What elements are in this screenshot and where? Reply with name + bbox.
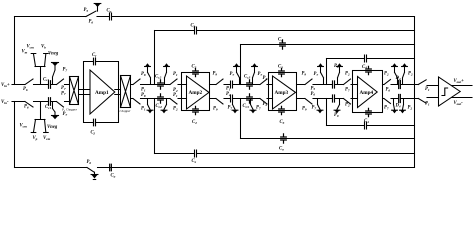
svg-text:P1: P1 [173,72,178,77]
capacitor Cc1 top [49,81,51,89]
svg-text:P1: P1 [141,88,146,93]
switch Vcm branch right bottom [45,120,46,133]
Vneg flag terminal top [52,62,59,64]
Vneg flag out second top [402,63,407,66]
svg-text:P1: P1 [141,107,146,112]
capacitor Cd on top bus4 [365,55,367,62]
switch P7 out bottom [384,99,391,104]
switch P2 out top [384,80,391,85]
svg-text:P9: P9 [213,72,218,77]
wire bus2 vertical tap bottom [154,99,156,154]
capacitor series stage3 bottom [231,95,233,102]
wire bottom rail input [12,101,70,103]
svg-text:P9: P9 [334,113,339,118]
Vneg flag stage2 first bottom [148,99,151,111]
switch P1 buffer bottom [418,98,438,104]
Vneg flag stage2 first top [145,63,150,66]
Vneg flag out second bottom [403,99,404,111]
svg-text:P2: P2 [384,72,389,77]
svg-text:Amp3: Amp3 [275,90,289,96]
switch P6 stage4 bottom first [305,99,312,105]
svg-text:C3: C3 [278,65,283,70]
wire top rail output [383,84,419,86]
capacitor Ca on top bus1 [110,13,112,20]
switch P8 top after chopper2 [133,79,140,85]
svg-text:D4: D4 [395,104,401,109]
chopper 2 X [121,76,131,108]
output buffer triangle [439,77,461,106]
capacitor Co2 on bottom bus3 [281,134,287,143]
switch P5 stage4 top first [305,79,312,85]
svg-text:Vneg: Vneg [48,52,59,57]
tick Vp bottom [31,132,36,134]
switch P5 on top bus1 [86,7,98,17]
capacitor Cb on top bus2 [195,27,197,34]
switch P7 top rail [57,79,64,85]
svg-text:Cc3: Cc3 [243,104,250,109]
svg-text:P7: P7 [384,106,389,111]
svg-text:Cc1: Cc1 [45,105,52,110]
capacitor Co on top bus3 [280,40,286,49]
wire top rail stage3 [210,84,269,86]
svg-text:Vin+: Vin+ [1,83,10,88]
wire left bus vertical bottom [14,102,16,168]
switch P6 bottom rail [25,102,33,108]
svg-text:Amp4: Amp4 [360,90,374,96]
svg-text:Vout-: Vout- [454,101,464,106]
svg-text:Co: Co [279,147,284,152]
svg-text:P2: P2 [173,107,178,112]
capacitor series stage3 top [231,81,233,88]
svg-text:P1: P1 [425,87,430,92]
svg-text:P2: P2 [345,72,350,77]
svg-text:P6: P6 [24,105,29,110]
capacitor Cc3 bottom [247,94,253,103]
switch Vb branch right top [44,54,49,67]
svg-text:P7: P7 [314,72,319,77]
wire bottom bus4 y125.4 [327,125,415,127]
svg-text:Vneg: Vneg [47,125,58,130]
switch P7 bottom rail [57,102,64,108]
switch P2 stage4 top [344,79,351,85]
capacitor C4i top [366,66,372,74]
Vneg flag stage2 second bottom [164,99,167,111]
Vneg flag stage2 second top [164,63,169,66]
switch Pb on bottom bus1 [87,168,95,175]
switch P1 buffer top [418,80,438,86]
capacitor C2 top [193,68,199,76]
svg-text:Ca: Ca [107,9,112,14]
capacitor Cc2 top [158,80,164,89]
wire bottom rail stage3 [210,98,269,100]
switch Vcm branch left bottom [34,120,36,133]
wire into Amp4 [353,85,358,99]
wire bus4 vertical tap bottom [326,99,328,126]
wire bus3 vertical tap top [240,45,242,85]
wire top rail stage4 [297,84,353,86]
switch P9 stage3 bottom first [216,99,223,105]
svg-text:P9: P9 [302,72,307,77]
svg-text:P2: P2 [408,106,413,111]
svg-text:P7: P7 [256,106,261,111]
wire output bottom [452,97,473,99]
wire bottom bus3 y139 [241,138,415,140]
wire output top [452,85,473,87]
wire bottom rail stage4 [297,98,353,100]
tick Vcm bottom [44,132,49,134]
op-amp Amp1 triangle [90,70,115,114]
svg-text:Cc1: Cc1 [43,77,50,82]
wire top bus2 y30 [155,30,415,32]
svg-text:P2: P2 [408,72,413,77]
svg-text:P7: P7 [345,88,350,93]
capacitor Cc4 bottom [333,95,335,102]
svg-text:Vcm: Vcm [27,45,35,50]
svg-text:P9: P9 [302,107,307,112]
node Vcm network stem bottom [35,102,45,120]
capacitor CL bottom [399,95,401,103]
switch P8 bottom after chopper2 [133,99,140,105]
Vneg flag stage4 first bottom [318,99,321,111]
chopper 2 box [121,76,131,108]
svg-text:C4: C4 [364,119,369,124]
capacitor C3 bottom [279,106,285,114]
svg-text:P8: P8 [141,93,146,98]
svg-text:Vcm: Vcm [20,124,28,129]
svg-text:P6: P6 [89,20,94,25]
svg-text:Vm: Vm [22,50,28,55]
svg-text:Vin-: Vin- [1,100,9,105]
svg-text:Vcm: Vcm [43,136,51,141]
svg-text:P5: P5 [311,86,316,91]
svg-text:Co: Co [278,38,283,43]
op-amp Amp2 triangle [187,76,210,109]
svg-text:C3: C3 [280,120,285,125]
svg-text:P6: P6 [311,92,316,97]
capacitor CL top [399,81,401,89]
wire right bus vertical [414,17,416,168]
capacitor Cc4 top [333,81,335,88]
op-amp Amp4 triangle [358,77,378,108]
svg-text:P7: P7 [63,68,68,73]
capacitor C4i bottom [366,108,372,116]
svg-text:Chopper: Chopper [120,109,132,113]
svg-text:C2: C2 [192,65,197,70]
capacitor Cd2 on bottom bus4 [365,122,367,129]
op-amp Amp4 feedback box [353,71,383,113]
Vneg flag stage4 first top [318,63,323,66]
svg-text:P8: P8 [141,72,146,77]
wire top bus1 y16 [15,16,415,18]
wire top rail input [12,84,70,86]
svg-text:P7: P7 [61,91,66,96]
svg-text:D4: D4 [395,76,401,81]
svg-text:P2: P2 [226,92,231,97]
svg-text:P9: P9 [213,107,218,112]
wire Amp1 to chopper2 stubs [115,90,121,95]
wire bottom bus1 y168 [15,167,415,169]
capacitor C3 top [279,68,285,76]
svg-text:Pc Chopper: Pc Chopper [61,108,78,113]
capacitor Cc3 top [247,80,253,89]
switch Vcm branch left top [31,54,36,67]
svg-text:Cc3: Cc3 [244,75,251,80]
capacitor Ce on bottom bus2 [195,150,197,157]
wire bottom rail stage2 [131,98,182,100]
wire bus3 vertical tap bottom [240,99,242,139]
svg-text:Ca: Ca [111,174,116,179]
wire top bus4 y58.5 [327,58,415,60]
svg-text:Cc2: Cc2 [155,75,162,80]
svg-text:P7: P7 [312,106,317,111]
schmitt symbol inside buffer [442,88,448,96]
svg-text:P2: P2 [263,76,268,81]
svg-text:C4: C4 [362,65,367,70]
svg-text:Vp: Vp [33,136,38,141]
capacitor Cc1 bottom [49,98,51,106]
svg-text:P7: P7 [230,72,235,77]
svg-text:P7: P7 [63,112,68,117]
capacitor Cf1 bottom [94,119,96,126]
svg-text:P6: P6 [386,88,391,93]
svg-text:Cb: Cb [191,24,196,29]
wire top bus3 y44.5 [241,44,415,46]
switch P2 stage3 bottom [260,99,267,105]
Vneg flag out first bottom [394,99,395,111]
svg-text:P7: P7 [228,106,233,111]
Vneg flag stage3 second bottom [251,99,254,111]
wire into Amp2 [182,85,187,99]
svg-text:P1: P1 [173,93,178,98]
svg-text:P6: P6 [87,160,92,165]
capacitor C2 bottom [193,106,199,114]
svg-text:Amp1: Amp1 [95,90,109,96]
svg-text:Ce: Ce [192,159,197,164]
chopper 1 X [70,77,79,105]
Vneg flag stage4 second top [337,63,342,66]
switch P2 stage3 top [260,79,267,85]
node Vcm network stem top [35,67,45,85]
svg-text:Vout+: Vout+ [454,79,465,84]
svg-text:P2: P2 [263,102,268,107]
svg-text:P1: P1 [226,87,231,92]
op-amp Amp3 triangle [273,76,296,109]
svg-text:P1: P1 [425,102,430,107]
op-amp Amp2 feedback box [182,73,210,111]
Vneg flag stage3 first bottom [233,99,236,111]
switch P9 stage3 top first [216,79,223,85]
op-amp Amp1 feedback box [84,62,119,123]
capacitor Cab on bottom bus1 [110,164,112,171]
Vneg flag out first top [392,63,397,66]
Vneg flag terminal bottom [53,102,56,116]
Vneg flag stage3 second top [252,63,257,66]
ground below Pb [91,174,98,176]
capacitor Cf1 top [94,58,96,65]
svg-text:P2: P2 [345,103,350,108]
svg-text:C2: C2 [192,120,197,125]
capacitor Cc2 bottom [158,94,164,103]
svg-text:Cc2: Cc2 [156,104,163,109]
switch P1 stage2 top [170,79,177,85]
switch P7 stage4 bottom [344,99,351,105]
wire left bus vertical top [14,17,16,85]
switch P1 stage2 bottom [170,99,177,105]
svg-text:Vb: Vb [41,45,46,50]
Vneg flag stage3 first top [234,63,239,66]
svg-text:Amp2: Amp2 [189,90,203,96]
Vneg flag stage4 second bottom [337,99,340,111]
wire into Amp3 [269,85,273,99]
wire bottom bus2 y153.4 [155,153,415,155]
Vneg flag above P5 [94,3,101,5]
wire bottom rail output [383,98,419,100]
svg-text:P7: P7 [61,86,66,91]
wire chopper1 to Amp1 stubs [79,90,91,95]
svg-text:P9: P9 [334,64,339,69]
wire bus4 vertical tap top [326,59,328,85]
wire bus2 vertical tap top [154,31,156,85]
svg-text:P5: P5 [84,8,89,13]
chopper 1 box [70,77,79,105]
svg-text:P6: P6 [23,87,28,92]
op-amp Amp3 feedback box [269,73,297,111]
wire top rail stage2 [131,84,182,86]
switch P6 top rail [25,79,33,85]
